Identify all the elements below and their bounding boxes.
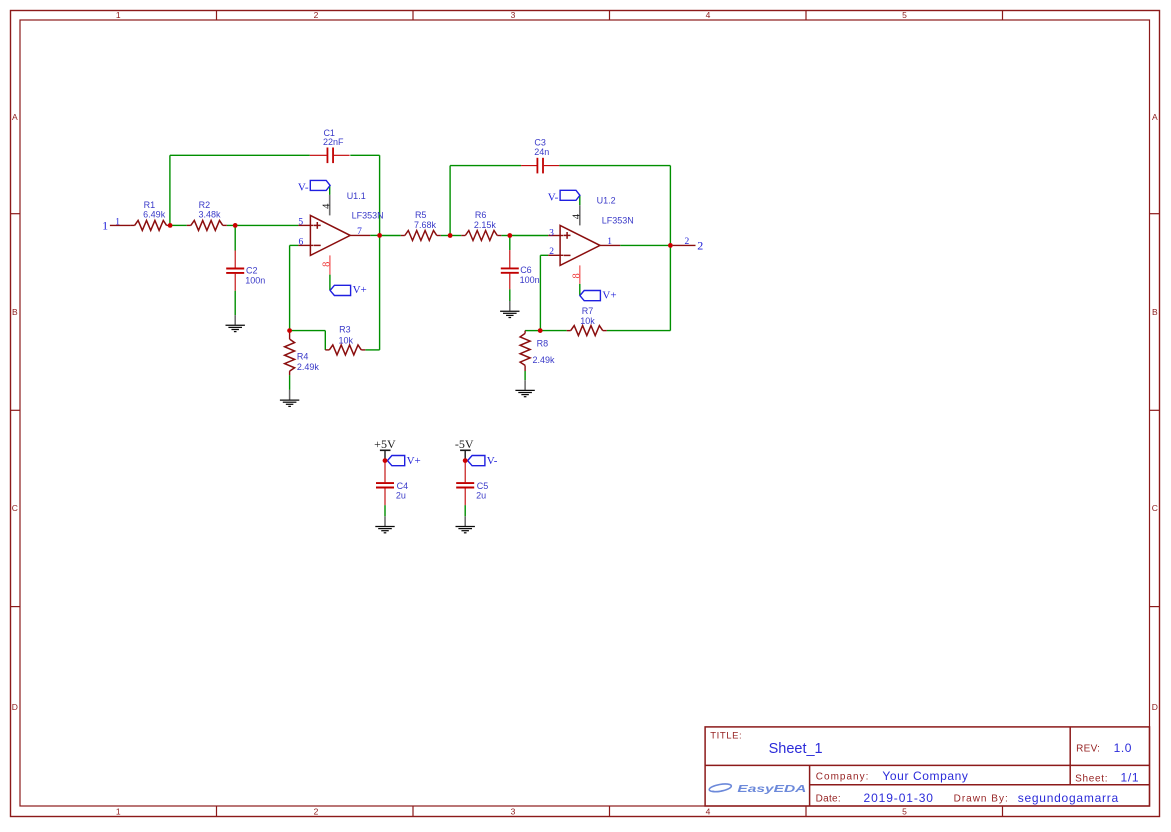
ground C4 [375,516,394,533]
wire C4 to ground [384,505,386,516]
svg-text:3.48k: 3.48k [198,209,221,219]
title block [705,727,1149,806]
svg-text:2u: 2u [396,491,406,501]
svg-text:1: 1 [115,217,120,227]
V- flag power [468,455,498,467]
node J1 R1/R2/C1 [168,223,173,228]
svg-text:V+: V+ [602,289,616,301]
svg-text:2.15k: 2.15k [474,220,497,230]
svg-text:segundogamarra: segundogamarra [1018,791,1119,805]
capacitor C1 [310,148,350,164]
svg-text:7.68k: 7.68k [414,220,437,230]
svg-text:C6: C6 [520,265,532,275]
U1.2 value LF353N [602,216,634,226]
svg-text:4: 4 [706,807,711,817]
node J8 R7/R8 [538,328,543,333]
capacitor C6 [501,250,519,289]
svg-text:4: 4 [571,213,582,219]
svg-text:B: B [1152,307,1158,317]
U1.2 pin 8 [571,273,582,278]
svg-text:Date:: Date: [816,793,841,804]
svg-text:2: 2 [314,10,319,20]
svg-text:1/1: 1/1 [1121,771,1140,785]
wire C5 to ground [464,505,466,516]
wire R7 right [607,330,671,332]
wire pin6 down [289,245,291,330]
node J7 U1.2 output [668,243,673,248]
wire J6 to C6 [509,236,511,251]
U1.2 pin 3 [549,228,554,238]
svg-text:LF353N: LF353N [602,216,634,226]
svg-text:TITLE:: TITLE: [710,731,742,742]
wire J1 to R2 [172,224,187,226]
svg-text:R7: R7 [582,306,594,316]
wire pin2 stub [540,254,548,256]
svg-text:R6: R6 [475,210,487,220]
svg-text:2.49k: 2.49k [533,355,556,365]
svg-text:24n: 24n [534,147,549,157]
wire R6 to J6 [501,235,510,237]
svg-text:8: 8 [322,262,333,267]
op-amp U1.2 [548,205,620,284]
svg-text:6: 6 [299,238,304,248]
EasyEDA logo [709,783,807,796]
net label +5V [374,437,396,460]
svg-text:2: 2 [697,239,703,253]
resistor R5 [401,231,441,241]
U1.1 pin 7 [357,227,362,237]
U1.1 pin 6 [299,238,304,248]
capacitor C4 [376,461,394,505]
svg-text:5: 5 [298,217,303,227]
svg-text:Company:: Company: [816,771,870,782]
svg-text:Your Company: Your Company [882,769,968,783]
capacitor C2 [226,251,244,291]
resistor R1 [131,220,171,230]
svg-text:C: C [12,503,18,513]
svg-text:3: 3 [549,228,554,238]
svg-text:+5V: +5V [374,437,396,451]
wire feedback1 top right [350,154,379,156]
resistor R6 [461,231,501,241]
V- flag U1.1 [298,180,330,193]
port 1 [102,217,131,232]
wire U1.1 output vertical [379,155,381,350]
svg-text:LF353N: LF353N [352,211,384,221]
svg-text:U1.1: U1.1 [347,191,366,201]
V- flag U1.2 [548,190,580,203]
wire feedback2 top right [559,165,670,167]
wire feedback1 top left [170,154,310,156]
wire J4 right [290,330,326,332]
wire C2 to ground [234,291,236,315]
node J3 U1.1 output [377,233,382,238]
wire J2 to C2 [234,225,236,250]
svg-text:R4: R4 [297,351,309,361]
svg-text:5: 5 [902,807,907,817]
svg-text:REV:: REV: [1076,744,1100,755]
U1.2 pin 2 [549,247,554,257]
svg-text:2: 2 [314,807,319,817]
svg-text:A: A [1152,112,1158,122]
svg-text:C4: C4 [397,481,409,491]
svg-text:V-: V- [487,455,498,467]
svg-text:1: 1 [116,807,121,817]
wire feedback1 left vertical [169,155,171,225]
svg-text:2u: 2u [476,491,486,501]
resistor R8 [520,331,530,371]
svg-text:22nF: 22nF [323,137,344,147]
svg-text:V+: V+ [353,284,367,296]
V+ flag U1.1 [330,284,367,296]
op-amp U1.1 [298,195,370,275]
V+ flag U1.2 [580,289,617,301]
wire pin7 out [370,234,379,236]
svg-text:R8: R8 [537,338,549,348]
U1.1 value LF353N [352,211,384,221]
wire J8 to R7 [540,330,567,332]
svg-text:8: 8 [571,273,582,278]
node J5 R5/R6/C3 [448,233,453,238]
svg-text:R5: R5 [415,210,427,220]
V+ flag power [387,455,420,467]
svg-text:C3: C3 [534,138,546,148]
svg-text:3: 3 [511,807,516,817]
svg-text:5: 5 [902,10,907,20]
wire R5 to J5 [441,235,450,237]
svg-text:10k: 10k [580,316,595,326]
wire C6 to ground [509,289,511,301]
ground R4 [280,390,299,407]
wire pin6 stub [290,244,299,246]
svg-text:C2: C2 [246,266,258,276]
svg-text:4: 4 [706,10,711,20]
ground R8 [515,380,534,397]
U1.2 name [597,195,616,205]
node -5V junction [463,458,468,463]
wire J8 to R8 [525,330,540,332]
node J2 R2/C2 [233,223,238,228]
svg-text:1: 1 [102,218,108,232]
resistor R3 [325,345,365,355]
title block texts [710,731,1139,806]
wire U1.2 output [620,244,670,246]
wire R4 to ground [289,375,291,390]
svg-text:B: B [12,307,18,317]
resistor R7 [567,326,607,336]
wire U1.2 output vertical [669,166,671,331]
wire J5 to R6 [450,235,461,237]
svg-text:7: 7 [357,227,362,237]
svg-text:EasyEDA: EasyEDA [737,784,806,795]
wire to R3 left [324,331,326,350]
resistor R2 [187,220,227,230]
capacitor C5 [456,461,474,505]
svg-text:U1.2: U1.2 [597,195,616,205]
svg-text:3: 3 [511,10,516,20]
wire J3 to R5 [380,235,401,237]
wire R3 right [365,349,379,351]
svg-text:2: 2 [685,237,690,247]
svg-text:2.49k: 2.49k [297,362,320,372]
svg-text:4: 4 [321,203,332,209]
U1.1 name [347,191,366,201]
svg-text:1: 1 [116,10,121,20]
svg-text:C5: C5 [477,481,489,491]
svg-text:100n: 100n [245,275,265,285]
svg-text:-5V: -5V [455,437,474,451]
svg-text:V-: V- [298,181,309,193]
svg-text:V+: V+ [407,455,421,467]
wire R8 to ground [524,371,526,380]
svg-text:10k: 10k [339,335,354,345]
svg-text:6.49k: 6.49k [143,209,166,219]
U1.1 pin 4 [321,203,332,209]
ground C6 [500,301,519,318]
svg-text:1: 1 [607,237,612,247]
svg-text:Drawn By:: Drawn By: [954,793,1009,804]
svg-text:V-: V- [548,191,559,203]
U1.1 pin 5 [298,217,303,227]
resistor R4 [285,331,295,376]
svg-text:Sheet_1: Sheet_1 [769,741,823,757]
node J4 R3/R4 [287,328,292,333]
node J6 R6/C6 [507,233,512,238]
node +5V junction [383,458,388,463]
U1.1 pin 8 [322,262,333,267]
ground C2 [226,315,245,332]
wire pin4 stub U1.2 [579,195,581,205]
net label -5V [455,437,474,460]
capacitor C3 [521,158,559,174]
wire R2 to pin5 [227,224,299,226]
svg-text:D: D [12,702,18,712]
wire J6 to pin3 [510,235,548,237]
wire pin4 stub U1.1 [329,185,331,195]
port 2 [673,237,704,253]
wire pin8 stub U1.1 [329,275,331,290]
wire pin2 down [539,255,541,330]
svg-text:1.0: 1.0 [1114,741,1132,755]
svg-text:2019-01-30: 2019-01-30 [864,791,934,805]
svg-text:D: D [1152,702,1158,712]
svg-text:100n: 100n [520,275,540,285]
svg-text:Sheet:: Sheet: [1075,773,1108,784]
svg-text:R3: R3 [339,324,351,334]
svg-text:2: 2 [549,247,554,257]
wire pin8 stub U1.2 [579,284,581,295]
wire feedback2 left vertical [449,166,451,236]
U1.2 pin 1 [607,237,612,247]
svg-text:C: C [1152,503,1158,513]
U1.2 pin 4 [571,213,582,219]
wire feedback2 top left [450,165,521,167]
svg-text:A: A [12,112,18,122]
ground C5 [456,516,475,533]
